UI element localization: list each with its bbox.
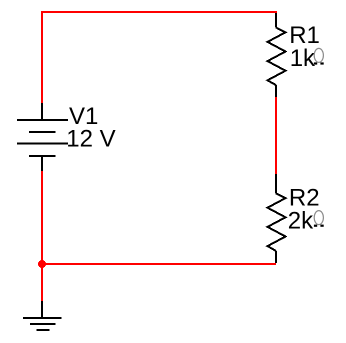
resistor R1 — [268, 13, 286, 97]
svg-text:1k: 1k — [290, 45, 316, 72]
omega glyph R2 — [314, 211, 324, 227]
svg-text:12 V: 12 V — [66, 126, 115, 153]
ground symbol — [23, 301, 62, 330]
battery V1 plate short 1 — [29, 131, 56, 133]
node junction dot — [38, 260, 46, 268]
wire ground stem red — [41, 264, 43, 301]
resistor R2 — [268, 174, 286, 263]
wire top (node V1+ to R1) — [41, 11, 277, 13]
battery V1 top lead — [41, 103, 43, 120]
svg-text:2k: 2k — [288, 207, 314, 234]
battery V1 plate long 2 — [17, 143, 68, 145]
battery V1 plate short 2 — [29, 155, 56, 157]
wire bottom (junction to R2) — [42, 263, 276, 265]
battery V1 bottom lead — [41, 156, 43, 171]
wire left vertical (top to battery +) — [41, 11, 43, 103]
wire left vertical (battery - to junction) — [41, 171, 43, 265]
wire right vertical (R1 to R2) — [275, 97, 277, 174]
battery V1 plate long 1 — [17, 119, 68, 121]
omega glyph R1 — [314, 48, 324, 64]
